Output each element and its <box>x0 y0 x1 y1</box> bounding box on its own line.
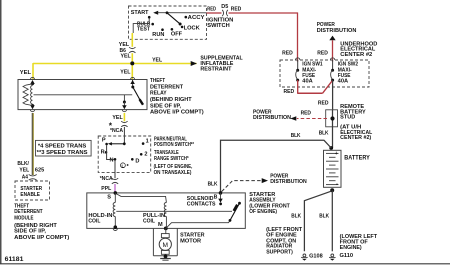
svg-text:G108: G108 <box>309 253 323 259</box>
svg-text:ABOVE I/P COMPT): ABOVE I/P COMPT) <box>150 110 204 116</box>
svg-text:PPL: PPL <box>101 186 112 192</box>
svg-text:RESTRAINT: RESTRAINT <box>200 66 232 72</box>
svg-text:THEFT: THEFT <box>150 78 166 84</box>
svg-text:DETERRENT: DETERRENT <box>14 209 43 215</box>
svg-text:R: R <box>101 149 105 155</box>
svg-text:B: B <box>214 195 218 201</box>
svg-text:STUD: STUD <box>340 115 355 121</box>
svg-text:YEL: YEL <box>20 70 32 76</box>
svg-text:*4 SPEED TRANS: *4 SPEED TRANS <box>38 144 87 150</box>
svg-text:RED: RED <box>231 6 242 12</box>
svg-text:2: 2 <box>144 152 147 158</box>
svg-text:ENGINE): ENGINE) <box>340 245 362 251</box>
svg-text:61181: 61181 <box>5 256 24 263</box>
svg-text:*NCA: *NCA <box>100 176 113 182</box>
svg-text:BLK: BLK <box>291 133 301 139</box>
svg-text:40A: 40A <box>338 79 349 85</box>
svg-text:ABOVE I/P COMPT): ABOVE I/P COMPT) <box>14 235 69 241</box>
svg-text:DISTRIBUTION: DISTRIBUTION <box>270 179 307 185</box>
svg-text:SIDE OF I/P,: SIDE OF I/P, <box>14 229 46 235</box>
svg-text:P: P <box>102 137 106 143</box>
svg-text:YEL: YEL <box>121 54 132 60</box>
svg-text:RUN: RUN <box>152 32 164 38</box>
svg-text:BLK: BLK <box>319 214 329 220</box>
svg-text:RED: RED <box>301 111 311 117</box>
svg-text:DISTRIBUTION: DISTRIBUTION <box>317 28 357 34</box>
svg-text:SWITCH: SWITCH <box>207 23 229 29</box>
svg-text:*NCA: *NCA <box>110 128 123 134</box>
svg-text:N: N <box>110 158 114 164</box>
svg-text:BLK: BLK <box>319 130 329 136</box>
svg-text:RED: RED <box>318 100 329 106</box>
svg-text:YEL: YEL <box>152 57 163 63</box>
svg-text:**3 SPEED TRANS: **3 SPEED TRANS <box>37 150 88 156</box>
svg-text:DISTRIBUTION: DISTRIBUTION <box>253 115 291 121</box>
svg-text:YEL: YEL <box>19 168 29 174</box>
svg-text:M: M <box>163 242 169 249</box>
svg-text:D: D <box>135 158 139 164</box>
svg-text:40A: 40A <box>302 79 313 85</box>
svg-text:CENTER #2): CENTER #2) <box>340 135 371 141</box>
svg-text:ON TRANSAXLE): ON TRANSAXLE) <box>154 170 192 176</box>
svg-text:A4: A4 <box>22 174 29 180</box>
svg-text:BATTERY: BATTERY <box>344 156 370 162</box>
svg-text:CENTER #2: CENTER #2 <box>340 52 372 58</box>
svg-text:D5: D5 <box>221 4 228 10</box>
svg-text:MODULE: MODULE <box>14 216 34 222</box>
svg-text:LOCK: LOCK <box>184 26 200 32</box>
svg-text:RED: RED <box>207 7 216 13</box>
svg-text:RELAY: RELAY <box>150 91 167 97</box>
svg-text:1: 1 <box>146 139 149 145</box>
svg-text:G110: G110 <box>340 253 354 259</box>
svg-text:OF ENGINE): OF ENGINE) <box>249 209 277 215</box>
svg-text:+: + <box>335 151 338 157</box>
svg-text:RED: RED <box>282 50 293 56</box>
svg-text:BLK: BLK <box>291 214 301 220</box>
svg-text:TEST: TEST <box>137 27 151 33</box>
svg-text:BLK/: BLK/ <box>17 161 29 167</box>
svg-text:COIL: COIL <box>88 218 101 224</box>
svg-text:M: M <box>158 222 163 228</box>
svg-text:-: - <box>336 182 338 188</box>
svg-text:OFF: OFF <box>171 32 183 38</box>
svg-text:POSITION SWITCH**: POSITION SWITCH** <box>154 142 195 148</box>
svg-text:CONTACTS: CONTACTS <box>187 202 216 208</box>
svg-text:ENABLE: ENABLE <box>20 192 40 198</box>
svg-text:COIL: COIL <box>143 218 156 224</box>
svg-text:YEL: YEL <box>112 115 123 121</box>
svg-text:RED: RED <box>317 50 328 56</box>
svg-text:MOTOR: MOTOR <box>180 238 201 244</box>
svg-text:RANGE SWITCH*: RANGE SWITCH* <box>154 156 189 162</box>
svg-text:YEL: YEL <box>120 69 131 75</box>
svg-text:SUPPORT): SUPPORT) <box>266 249 293 255</box>
svg-text:SIDE OF I/P,: SIDE OF I/P, <box>150 104 181 110</box>
svg-text:S: S <box>107 195 111 201</box>
svg-text:ACCY: ACCY <box>188 15 205 21</box>
svg-text:(BEHIND RIGHT: (BEHIND RIGHT <box>150 97 192 103</box>
svg-text:625: 625 <box>35 168 44 174</box>
svg-text:START: START <box>131 10 149 16</box>
svg-text:BLK: BLK <box>208 181 218 187</box>
svg-text:RED: RED <box>284 89 295 95</box>
svg-text:DETERRENT: DETERRENT <box>150 84 184 90</box>
svg-text:L: L <box>122 163 125 168</box>
